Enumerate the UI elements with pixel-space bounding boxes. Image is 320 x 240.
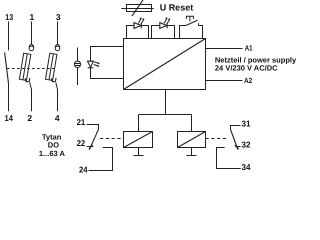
svg-text:24: 24	[79, 164, 88, 174]
top LED module box 2	[152, 26, 175, 39]
reset switch blade	[185, 20, 197, 26]
contact blade 31	[231, 130, 239, 150]
contact blade 21	[89, 129, 98, 150]
ground K2	[191, 148, 193, 156]
indicator lamp wire	[77, 48, 79, 86]
svg-text:21: 21	[77, 117, 86, 127]
LED U indicator (box 1)	[134, 23, 141, 29]
ground K1	[138, 148, 140, 156]
dashed link K2 to contact 31-32-34	[206, 138, 229, 140]
LED arrows (box 1)	[138, 18, 141, 23]
svg-text:2: 2	[27, 113, 32, 123]
power supply diagonal	[124, 39, 206, 90]
LED D1 power indicator	[88, 61, 94, 67]
svg-text:34: 34	[242, 162, 251, 172]
mechanical linkage (dashed)	[7, 68, 56, 70]
wire terminal 24	[89, 148, 113, 171]
terminal A2 wire	[206, 80, 243, 82]
wire terminal 32	[236, 146, 240, 148]
fuse cartridge pole 3-4 (tilted)	[45, 53, 56, 80]
switch blade pole 13-14	[5, 52, 9, 83]
fuse holder bottom fork pole 3	[51, 78, 56, 82]
relay supply bus	[139, 114, 192, 116]
top LED module box 1	[127, 26, 149, 39]
wire drop to relay K1	[138, 115, 140, 132]
relay coil K1	[124, 132, 153, 148]
wire 13 (upper segment)	[8, 22, 10, 51]
svg-text:14: 14	[5, 113, 14, 123]
dashed link K1 to contact 21-22-24	[100, 138, 124, 140]
wire PSU output down	[165, 90, 167, 115]
contact tick 22	[89, 145, 93, 149]
wire terminal 22	[87, 146, 94, 148]
svg-text:3: 3	[56, 12, 61, 22]
svg-text:4: 4	[55, 113, 60, 123]
wire drop to relay K2	[191, 115, 193, 132]
reset switch contact tick	[198, 23, 200, 25]
LED arrows (box 2)	[164, 18, 167, 23]
relay coil K2	[178, 132, 206, 148]
power supply unit box	[124, 39, 206, 90]
wire terminal 31	[231, 126, 241, 130]
fuse holder top contact circle pole 3	[55, 46, 60, 51]
svg-text:A2: A2	[244, 76, 252, 85]
LED D1 light arrows	[94, 62, 99, 64]
wire to terminal 2	[30, 82, 32, 111]
wire 1 (upper segment)	[31, 22, 33, 45]
svg-text:1...63 A: 1...63 A	[39, 149, 66, 158]
svg-text:31: 31	[242, 119, 251, 129]
svg-text:1: 1	[30, 12, 35, 22]
wire 3 (upper segment)	[57, 22, 59, 45]
wire 13-14 (lower segment)	[8, 84, 10, 112]
svg-text:32: 32	[242, 140, 251, 150]
svg-text:U Reset: U Reset	[160, 2, 194, 12]
svg-text:24 V/230 V AC/DC: 24 V/230 V AC/DC	[215, 64, 278, 73]
LED I indicator (box 2)	[160, 23, 167, 29]
fuse holder top clip pole 1	[29, 44, 34, 47]
svg-text:A1: A1	[245, 44, 253, 53]
wire terminal 21	[87, 125, 99, 130]
contact tick 32	[235, 145, 239, 149]
fuse with strike (top legend)	[121, 8, 154, 10]
indicator lamp	[74, 61, 80, 67]
LED indicator branch box	[91, 47, 124, 79]
reset button cap	[186, 16, 193, 21]
wire terminal 34	[217, 148, 241, 169]
fuse cartridge pole 1-2 (tilted)	[19, 53, 30, 80]
svg-text:13: 13	[5, 12, 13, 22]
fuse holder top clip pole 3	[55, 44, 60, 47]
svg-text:22: 22	[77, 138, 86, 148]
fuse holder top contact circle pole 1	[29, 46, 34, 51]
top reset button box 3	[180, 26, 203, 39]
wire to terminal 4	[56, 82, 58, 111]
fuse strike diagonal	[132, 0, 143, 16]
terminal A1 wire	[206, 48, 243, 50]
fuse holder bottom fork pole 1	[25, 78, 30, 82]
